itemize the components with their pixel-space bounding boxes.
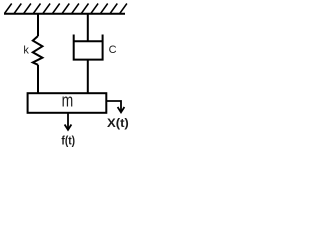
svg-text:f(t): f(t) [61,134,75,148]
svg-text:k: k [23,45,29,57]
damper C piston plate [74,40,103,42]
force arrow f(t) [67,113,69,129]
wire: rod from ceiling to damper piston [87,14,89,42]
wire: rod from spring bottom to mass [37,65,39,93]
displacement arrow X(t) [106,101,121,111]
damper C cylinder [74,35,103,60]
wire: rod from damper cylinder to mass [87,60,89,94]
svg-text:X(t): X(t) [107,116,129,130]
spring k [33,36,43,65]
svg-text:C: C [109,44,117,56]
wire: rod from ceiling to spring top [37,14,39,36]
fixed support hatching [5,4,127,14]
svg-text:m: m [62,90,74,111]
mass m block [28,93,107,113]
fixed support ceiling line [4,13,125,15]
